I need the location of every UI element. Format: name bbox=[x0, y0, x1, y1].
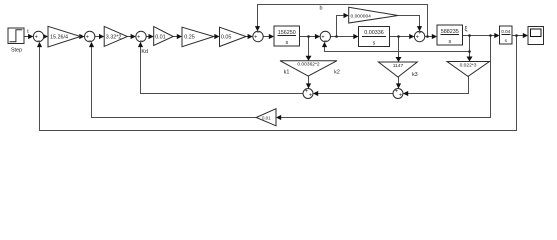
svg-text:0.04: 0.04 bbox=[501, 29, 511, 34]
svg-text:Kd: Kd bbox=[141, 49, 148, 55]
svg-text:s: s bbox=[285, 40, 288, 46]
svg-text:+: + bbox=[395, 89, 398, 95]
svg-text:156250: 156250 bbox=[278, 30, 296, 36]
svg-text:+: + bbox=[309, 93, 312, 99]
svg-text:15.26/4: 15.26/4 bbox=[50, 35, 68, 41]
svg-text:588235: 588235 bbox=[441, 29, 459, 35]
svg-text:ξ: ξ bbox=[465, 26, 468, 33]
svg-text:0.01: 0.01 bbox=[262, 115, 271, 120]
svg-text:−: − bbox=[324, 39, 327, 45]
svg-text:k1: k1 bbox=[284, 70, 290, 76]
svg-text:−: − bbox=[140, 39, 143, 45]
svg-text:3.32*2: 3.32*2 bbox=[106, 35, 122, 41]
svg-text:s: s bbox=[448, 39, 451, 45]
svg-text:t: t bbox=[27, 29, 29, 35]
svg-text:s: s bbox=[373, 41, 376, 47]
svg-text:0.25: 0.25 bbox=[184, 35, 195, 41]
svg-text:0.000004: 0.000004 bbox=[351, 13, 372, 19]
svg-text:k3: k3 bbox=[412, 72, 418, 78]
svg-text:0.00362*2: 0.00362*2 bbox=[297, 62, 320, 68]
svg-text:Step: Step bbox=[11, 48, 22, 54]
svg-text:0.022*3: 0.022*3 bbox=[460, 63, 477, 69]
svg-text:0.05: 0.05 bbox=[221, 35, 232, 41]
svg-text:0.00336: 0.00336 bbox=[364, 30, 384, 36]
svg-text:1147: 1147 bbox=[393, 63, 404, 69]
svg-text:0.01: 0.01 bbox=[155, 35, 166, 41]
svg-text:k2: k2 bbox=[334, 70, 340, 76]
svg-text:+: + bbox=[399, 93, 402, 99]
svg-text:+: + bbox=[418, 31, 421, 37]
svg-text:−: − bbox=[257, 31, 260, 37]
svg-text:b: b bbox=[320, 6, 323, 12]
svg-text:−: − bbox=[88, 39, 91, 45]
svg-text:+: + bbox=[305, 89, 308, 95]
svg-text:−: − bbox=[37, 39, 40, 45]
